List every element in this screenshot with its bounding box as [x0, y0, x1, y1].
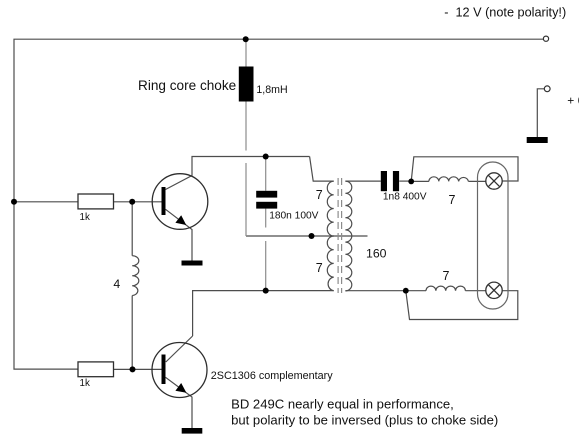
svg-text:2SC1306 complementary: 2SC1306 complementary	[211, 370, 333, 382]
svg-text:160: 160	[366, 247, 387, 261]
svg-text:1k: 1k	[80, 212, 90, 223]
svg-text:1,8mH: 1,8mH	[256, 84, 287, 96]
svg-text:+ 6: + 6	[567, 94, 579, 108]
svg-text:7: 7	[316, 188, 323, 202]
svg-text:1n8 400V: 1n8 400V	[383, 192, 427, 203]
svg-text:Ring core choke: Ring core choke	[138, 78, 236, 93]
svg-text:BD 249C nearly equal in perfor: BD 249C nearly equal in performance,	[231, 397, 454, 412]
svg-text:7: 7	[316, 261, 323, 275]
svg-text:180n 100V: 180n 100V	[269, 210, 318, 221]
svg-text:but polarity to be inversed (p: but polarity to be inversed (plus to cho…	[231, 412, 498, 427]
svg-text:1k: 1k	[80, 378, 90, 389]
svg-text:7: 7	[443, 269, 450, 283]
svg-text:- 12 V (note polarity!): - 12 V (note polarity!)	[444, 5, 566, 19]
svg-text:4: 4	[113, 277, 120, 291]
svg-text:7: 7	[449, 193, 456, 207]
